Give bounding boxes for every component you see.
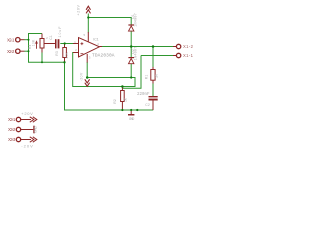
svg-text:10uF: 10uF: [58, 27, 62, 38]
connector X3-1 pad: [16, 117, 20, 121]
supply +20V arrow top: [86, 6, 90, 10]
op-amp IC1 triangle: [79, 38, 100, 57]
wire output node to R1: [152, 47, 154, 68]
svg-text:3: 3: [89, 56, 91, 60]
wire top rail to D1: [88, 18, 131, 26]
op-amp pin1 lead: [73, 43, 79, 45]
connector X1-1 pad stub: [173, 55, 176, 57]
svg-text:TDA2030A: TDA2030A: [92, 53, 115, 59]
svg-text:2: 2: [46, 36, 48, 40]
wire pin3 down: [86, 62, 88, 78]
capacitor C2 plates: [149, 96, 158, 97]
wire ground rail: [64, 109, 153, 111]
svg-text:IC1: IC1: [93, 38, 99, 42]
svg-text:X3-3: X3-3: [8, 137, 16, 142]
wire R1 bottom to C2: [152, 83, 154, 96]
potentiometer R4 bottom lead: [41, 48, 43, 53]
wire X1-1 line: [141, 55, 174, 57]
junction output D column: [130, 45, 133, 48]
op-amp minus mark: [81, 53, 84, 55]
wire X2-2 to rail: [25, 50, 30, 52]
resistor R3 bottom lead: [64, 58, 66, 63]
resistor R1 body: [151, 70, 155, 81]
junction D2 bottom: [130, 76, 132, 78]
junction gnd symbol: [130, 109, 132, 111]
op-amp pin2 lead: [73, 52, 79, 54]
wire output to X1-2: [102, 46, 174, 48]
potentiometer R4 wiper lead to C1: [44, 43, 55, 45]
diode D1 triangle: [129, 26, 134, 31]
potentiometer R4 body: [40, 39, 44, 49]
svg-text:1N4007: 1N4007: [135, 47, 139, 61]
junction X2-1: [28, 39, 30, 41]
svg-text:R1: R1: [145, 75, 149, 80]
svg-text:R2: R2: [113, 99, 117, 104]
connector X1-2 pad stub: [173, 46, 176, 48]
svg-text:-20V: -20V: [21, 143, 33, 148]
op-amp pin3 lead: [86, 54, 88, 63]
svg-text:220nF: 220nF: [137, 93, 150, 97]
wire pin3 node horizontal: [87, 77, 135, 79]
connector X3-2 pad: [16, 127, 20, 131]
connector X2-1 pad: [16, 38, 20, 42]
svg-text:2: 2: [75, 48, 77, 52]
diode D2 triangle: [129, 59, 134, 64]
capacitor C1 plates: [55, 39, 57, 48]
connector X3-1 +20V arrow: [21, 119, 31, 121]
svg-text:+20V: +20V: [76, 4, 80, 15]
resistor R2 top lead: [121, 87, 123, 91]
ground symbol stub: [130, 110, 132, 114]
svg-text:X2-1: X2-1: [7, 37, 15, 42]
svg-text:+20V: +20V: [21, 111, 33, 116]
junction rail x137: [136, 109, 138, 111]
svg-text:-20V: -20V: [79, 72, 83, 81]
svg-text:5: 5: [83, 33, 85, 37]
junction R2 top: [121, 85, 124, 88]
svg-text:10K: 10K: [65, 52, 69, 59]
svg-text:1R: 1R: [155, 73, 159, 78]
wire D1 bottom to output line: [130, 32, 132, 48]
junction output R1 column: [152, 45, 155, 48]
op-amp pin4 output lead: [99, 46, 102, 48]
junction X2-2: [28, 50, 30, 52]
connector X1-1 pad: [176, 53, 180, 57]
junction pin3 gnd: [86, 76, 89, 79]
resistor R3 top lead: [64, 44, 66, 48]
capacitor C2 bottom lead: [152, 101, 154, 111]
ground symbol bar: [128, 114, 134, 116]
svg-text:GND: GND: [129, 117, 135, 121]
resistor R3 body: [63, 48, 67, 58]
wire pot bottom to bottom horizontal: [41, 52, 43, 62]
op-amp pin5 lead: [87, 32, 89, 42]
svg-text:X1-2: X1-2: [183, 44, 194, 49]
junction R3 bottom: [63, 61, 65, 63]
resistor R1 bottom lead: [152, 80, 154, 83]
resistor R2 bottom lead: [121, 102, 123, 111]
svg-text:1N4007: 1N4007: [135, 13, 139, 27]
wire D2 bottom to gnd line: [130, 64, 132, 78]
svg-text:C1: C1: [49, 35, 53, 40]
wire X1-1 feedback vertical: [122, 56, 141, 89]
resistor R1 top lead: [152, 67, 154, 70]
wire +20V supply down to pin5: [87, 14, 89, 33]
junction pot bottom: [41, 61, 43, 63]
connector X2-1 pad stub: [20, 39, 24, 41]
svg-text:X3-1: X3-1: [8, 117, 16, 122]
svg-text:GND: GND: [33, 125, 37, 133]
wire C1 to op-amp pin1: [60, 43, 73, 45]
svg-text:X2-2: X2-2: [7, 49, 15, 54]
svg-text:C2: C2: [145, 103, 150, 107]
junction R2 bottom rail: [121, 109, 123, 111]
connector X1-2 pad: [176, 44, 180, 48]
diode D2 cathode bar: [128, 57, 134, 58]
connector X2-2 pad stub: [20, 50, 24, 52]
junction R3 top: [64, 42, 66, 44]
junction +20V rail: [87, 16, 89, 18]
potentiometer R4 top lead: [41, 34, 43, 39]
svg-text:10K: 10K: [31, 39, 35, 46]
connector X3-3 pad: [16, 137, 20, 141]
wire output node to D2 top: [130, 47, 132, 58]
connector X2-2 pad: [16, 49, 20, 53]
wire R3 bottom node down to ground rail: [64, 62, 66, 110]
svg-text:X3-2: X3-2: [8, 127, 16, 132]
supply -20V arrow below pin3: [85, 79, 90, 83]
potentiometer R4 wiper arrow: [36, 43, 38, 49]
diode D1 cathode bar: [128, 24, 134, 25]
wire input bottom horizontal: [28, 61, 65, 63]
resistor R2 body: [121, 91, 125, 102]
connector X3-3 -20V arrow: [21, 139, 31, 141]
wire input left vertical rail: [29, 34, 43, 63]
wire pin2 to feedback line: [73, 53, 135, 87]
svg-text:R3: R3: [55, 51, 59, 56]
connector X3-2 gnd bar: [21, 129, 33, 131]
op-amp plus mark: [81, 42, 84, 45]
wire X2-1 to rail: [25, 39, 30, 41]
svg-text:4: 4: [97, 42, 99, 46]
svg-text:X1-1: X1-1: [183, 53, 194, 58]
